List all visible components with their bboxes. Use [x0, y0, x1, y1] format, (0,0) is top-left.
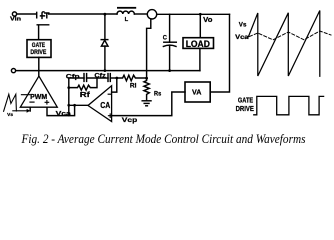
- wire bottom rail: [16, 70, 200, 72]
- capacitor C: [163, 14, 176, 70]
- wire Vca dip to PWM: [47, 105, 75, 115]
- wire between caps: [87, 77, 108, 79]
- svg-text:Vcp: Vcp: [122, 117, 137, 124]
- svg-text:LOAD: LOAD: [186, 39, 210, 49]
- capacitor Cfz: [108, 74, 110, 82]
- wire PWM left input stub: [29, 107, 31, 111]
- wire Vca to CA: [69, 104, 88, 106]
- wire load to bottom rail: [199, 48, 201, 70]
- waveform sawtooth Vs: [248, 11, 319, 77]
- node Vca junction: [67, 104, 70, 107]
- label PWM minus: [30, 101, 34, 103]
- node diode top junction: [104, 13, 107, 16]
- svg-text:Vca: Vca: [235, 34, 249, 41]
- svg-text:Fig. 2 - Average Current Mode: Fig. 2 - Average Current Mode Control Ci…: [21, 132, 306, 146]
- node return terminal: [11, 69, 15, 73]
- current sense CS1: [147, 10, 156, 19]
- svg-text:L: L: [125, 17, 129, 23]
- svg-text:C: C: [163, 34, 167, 41]
- resistor RI: [117, 75, 147, 81]
- capacitor Cfp: [84, 74, 87, 82]
- node diode bottom junction: [104, 69, 107, 72]
- resistor Rf: [69, 78, 97, 90]
- ground: [142, 101, 151, 106]
- waveform gate drive square: [254, 96, 324, 114]
- svg-text:Cfz: Cfz: [94, 72, 105, 79]
- node Vin terminal: [12, 12, 16, 16]
- svg-text:Cfp: Cfp: [66, 74, 80, 81]
- sawtooth ramp source icon: [4, 94, 31, 112]
- node summing junction: [115, 77, 118, 80]
- wire current sense tap: [147, 19, 151, 78]
- svg-text:Vin: Vin: [10, 16, 21, 22]
- diode D1: [101, 14, 108, 70]
- feedback leg wire: [68, 78, 70, 116]
- wire Vo to load: [199, 14, 201, 37]
- svg-text:PWM: PWM: [30, 94, 47, 101]
- box LOAD: [183, 38, 214, 49]
- resistor Rs: [144, 78, 149, 101]
- node cap bottom junction: [168, 69, 171, 72]
- svg-text:RI: RI: [130, 83, 137, 89]
- label CA minus: [108, 93, 111, 95]
- node dip junction: [73, 104, 76, 107]
- label PWM plus: [45, 101, 49, 105]
- waveform Vca dashed: [250, 31, 332, 40]
- wire top rail to diode and inductor: [49, 13, 117, 15]
- svg-text:DRIVE: DRIVE: [236, 104, 254, 113]
- svg-text:Rf: Rf: [80, 92, 91, 99]
- svg-text:Vs: Vs: [7, 112, 13, 117]
- svg-text:Vca: Vca: [56, 110, 72, 117]
- label CA plus: [108, 114, 112, 118]
- box VA op-amp U2: [185, 82, 210, 102]
- svg-text:Rs: Rs: [154, 90, 162, 97]
- svg-text:GATE: GATE: [32, 42, 46, 49]
- node Rf junction: [67, 86, 70, 89]
- svg-text:Vs: Vs: [239, 21, 247, 28]
- svg-text:VA: VA: [192, 88, 202, 97]
- node Vo junction: [199, 13, 202, 16]
- box gate drive: [27, 40, 51, 58]
- op-amp PWM comparator: [20, 76, 57, 107]
- wire PWM output to gate drive: [38, 57, 40, 76]
- wire top rail left: [17, 13, 36, 15]
- summing row: wire left: [69, 77, 84, 79]
- wire cap to summing junction: [110, 77, 117, 79]
- op-amp CA: [88, 86, 112, 122]
- svg-text:CA: CA: [100, 101, 110, 110]
- transistor Q1 switch: [37, 12, 49, 40]
- wire CA inverting input: [112, 78, 117, 92]
- node sense junction: [145, 77, 148, 80]
- svg-text:Vo: Vo: [203, 15, 213, 24]
- wire Vcp run: [112, 92, 185, 116]
- wire inductor to sense: [134, 13, 147, 15]
- wire VA output corner: [210, 14, 229, 92]
- svg-text:DRIVE: DRIVE: [30, 49, 46, 56]
- inductor L: [117, 7, 136, 14]
- wire top rail right: [157, 13, 230, 15]
